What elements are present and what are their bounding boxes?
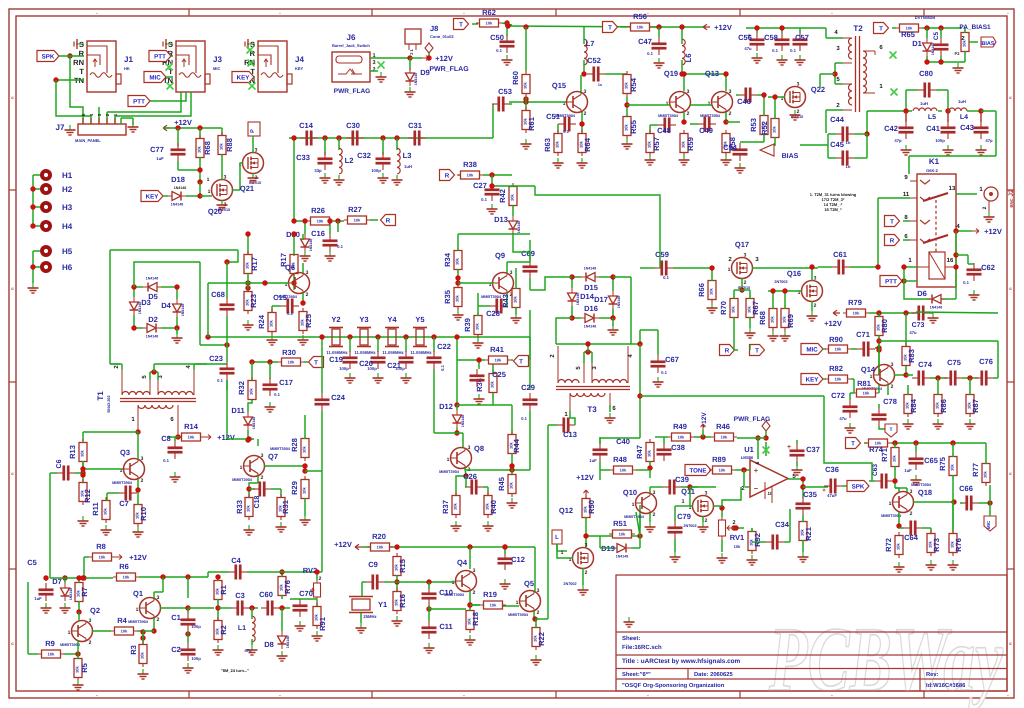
svg-text:C5: C5: [27, 558, 37, 567]
svg-text:R28: R28: [290, 438, 299, 452]
svg-text:L3: L3: [403, 151, 412, 160]
svg-text:2: 2: [729, 111, 732, 117]
svg-text:0.1: 0.1: [963, 280, 969, 285]
svg-text:R34: R34: [443, 252, 452, 267]
svg-text:J1: J1: [124, 55, 133, 64]
svg-text:1: 1: [452, 580, 455, 586]
svg-text:D13: D13: [494, 215, 508, 224]
svg-text:1uF: 1uF: [34, 596, 42, 601]
svg-text:1: 1: [728, 267, 731, 273]
svg-text:R: R: [725, 348, 730, 355]
svg-text:C53: C53: [498, 87, 512, 96]
svg-text:10k: 10k: [317, 219, 324, 224]
svg-text:1uH: 1uH: [958, 99, 966, 104]
svg-text:1n: 1n: [846, 164, 851, 169]
svg-text:10k: 10k: [453, 502, 458, 509]
svg-text:+12V: +12V: [824, 319, 842, 328]
svg-text:C42: C42: [884, 124, 898, 133]
svg-text:3: 3: [537, 588, 540, 594]
svg-text:10k: 10k: [188, 435, 195, 440]
svg-text:R: R: [890, 238, 895, 245]
svg-text:PTT: PTT: [154, 54, 166, 61]
svg-text:2: 2: [585, 570, 588, 576]
svg-text:T: T: [851, 441, 855, 448]
svg-text:1: 1: [561, 550, 564, 556]
svg-text:1N4148: 1N4148: [252, 417, 256, 430]
svg-text:R54: R54: [629, 77, 638, 92]
svg-text:L7: L7: [586, 39, 595, 48]
svg-text:100p: 100p: [191, 624, 201, 629]
svg-text:10k: 10k: [892, 454, 897, 461]
svg-text:C6: C6: [56, 459, 63, 468]
svg-text:D16: D16: [584, 304, 598, 313]
svg-text:2: 2: [705, 518, 708, 524]
svg-text:R14: R14: [184, 422, 199, 431]
svg-text:1N4148: 1N4148: [414, 73, 418, 86]
svg-text:C43: C43: [960, 123, 974, 132]
svg-text:H3: H3: [62, 203, 73, 212]
svg-text:J2: J2: [1008, 189, 1015, 197]
svg-text:R46: R46: [716, 422, 730, 431]
svg-text:C46: C46: [737, 97, 751, 106]
svg-text:LM386: LM386: [741, 455, 754, 460]
svg-text:Conn_01x02: Conn_01x02: [430, 34, 454, 39]
svg-text:0.1: 0.1: [217, 378, 223, 383]
svg-text:R11: R11: [91, 502, 100, 515]
svg-text:0.1: 0.1: [661, 370, 667, 375]
svg-text:10k: 10k: [647, 140, 652, 147]
svg-text:C68: C68: [211, 290, 225, 299]
svg-text:L6: L6: [684, 54, 693, 63]
svg-text:Q21: Q21: [240, 184, 254, 193]
svg-text:2: 2: [157, 617, 160, 623]
svg-text:G6K-2: G6K-2: [926, 168, 939, 173]
svg-text:C59: C59: [655, 250, 669, 259]
svg-text:BIAS: BIAS: [782, 153, 799, 160]
svg-text:R5: R5: [80, 663, 89, 673]
svg-text:Q8: Q8: [474, 444, 484, 453]
svg-text:C56: C56: [738, 33, 752, 42]
svg-text:C64: C64: [904, 533, 919, 542]
svg-text:2: 2: [891, 384, 894, 390]
svg-text:1uF: 1uF: [156, 156, 164, 161]
svg-text:T1: T1: [96, 391, 105, 401]
svg-text:2N7002: 2N7002: [683, 524, 696, 528]
svg-text:0.1: 0.1: [337, 244, 343, 249]
svg-text:R63: R63: [543, 138, 552, 152]
svg-text:10k: 10k: [513, 295, 518, 302]
svg-text:R70: R70: [719, 301, 728, 315]
svg-text:10k: 10k: [354, 218, 361, 223]
svg-text:1: 1: [516, 600, 519, 606]
svg-text:R37: R37: [441, 500, 450, 514]
svg-text:R9: R9: [45, 639, 55, 648]
svg-text:1uH: 1uH: [920, 101, 928, 106]
svg-text:10k: 10k: [140, 651, 145, 658]
svg-text:Rev:: Rev:: [926, 672, 939, 678]
svg-text:H6: H6: [62, 263, 73, 272]
svg-text:R89: R89: [712, 455, 726, 464]
svg-text:1uF: 1uF: [904, 468, 912, 473]
svg-text:C25: C25: [492, 370, 506, 379]
svg-text:C14: C14: [299, 121, 314, 130]
svg-text:R48: R48: [613, 455, 627, 464]
svg-text:0.1: 0.1: [790, 48, 796, 53]
svg-text:R83: R83: [907, 349, 916, 363]
svg-text:10k: 10k: [523, 81, 528, 88]
svg-text:10k: 10k: [455, 257, 460, 264]
svg-text:2: 2: [372, 67, 375, 73]
svg-text:KEY: KEY: [295, 66, 304, 71]
svg-text:1N4148: 1N4148: [146, 277, 159, 281]
svg-text:D12: D12: [439, 402, 453, 411]
svg-text:C1: C1: [171, 613, 181, 622]
svg-text:C57: C57: [795, 33, 809, 42]
svg-text:R50: R50: [587, 500, 596, 514]
svg-text:10k: 10k: [950, 463, 955, 470]
svg-text:2N7002: 2N7002: [774, 280, 787, 284]
svg-text:10k: 10k: [555, 140, 560, 147]
svg-text:R33: R33: [235, 500, 244, 514]
svg-text:3: 3: [157, 595, 160, 601]
svg-text:10k: 10k: [80, 449, 85, 456]
svg-text:J7: J7: [56, 123, 65, 132]
svg-text:R16: R16: [398, 594, 407, 608]
svg-text:+: +: [787, 444, 791, 451]
svg-text:Q16: Q16: [787, 269, 801, 278]
svg-text:18 T2M_*: 18 T2M_*: [824, 207, 842, 212]
svg-text:11.059MHz: 11.059MHz: [410, 350, 431, 355]
svg-text:C2: C2: [171, 645, 181, 654]
svg-text:10k: 10k: [288, 360, 295, 365]
svg-text:3: 3: [510, 270, 513, 276]
svg-text:R61: R61: [527, 117, 536, 131]
svg-text:3: 3: [372, 60, 375, 66]
svg-text:T: T: [889, 427, 892, 433]
svg-text:KEY: KEY: [806, 377, 820, 384]
svg-text:MMBT3904: MMBT3904: [439, 470, 460, 474]
svg-text:R76: R76: [954, 538, 963, 552]
svg-text:"OSQF Org-Sponsoring Organizat: "OSQF Org-Sponsoring Organization: [622, 682, 725, 689]
svg-text:3: 3: [585, 543, 588, 549]
svg-text:C65: C65: [924, 456, 938, 465]
svg-text:R52: R52: [760, 121, 769, 135]
svg-text:C19: C19: [329, 355, 343, 364]
svg-text:10k: 10k: [624, 81, 629, 88]
svg-text:0.1: 0.1: [440, 364, 445, 370]
svg-text:1N4148: 1N4148: [616, 555, 629, 559]
svg-text:R57: R57: [652, 137, 661, 151]
svg-text:C54: C54: [723, 143, 738, 152]
svg-text:R3: R3: [129, 645, 138, 655]
svg-text:R4: R4: [117, 616, 127, 625]
svg-text:2: 2: [537, 610, 540, 616]
svg-text:47u: 47u: [244, 648, 252, 653]
svg-text:C37: C37: [806, 445, 820, 454]
svg-text:R12: R12: [83, 489, 92, 503]
svg-text:1N4148: 1N4148: [138, 302, 142, 315]
svg-text:10k: 10k: [302, 445, 307, 452]
svg-text:10k: 10k: [721, 435, 728, 440]
svg-text:MIC: MIC: [149, 75, 161, 82]
svg-text:J4: J4: [295, 55, 304, 64]
svg-text:10k: 10k: [455, 294, 460, 301]
svg-text:10k: 10k: [853, 311, 860, 316]
svg-text:C41: C41: [926, 124, 940, 133]
svg-text:100p: 100p: [371, 168, 381, 173]
svg-text:+12V: +12V: [576, 473, 594, 482]
svg-text:C23: C23: [209, 354, 223, 363]
svg-text:+12V: +12V: [217, 433, 235, 442]
svg-text:T: T: [608, 25, 612, 32]
svg-text:1N4148: 1N4148: [576, 293, 580, 306]
svg-text:0.1: 0.1: [521, 416, 527, 421]
svg-text:J3: J3: [213, 55, 222, 64]
svg-text:3: 3: [797, 82, 800, 88]
svg-text:C22: C22: [437, 342, 451, 351]
svg-text:1uF: 1uF: [589, 458, 597, 463]
svg-text:D6: D6: [917, 289, 927, 298]
svg-text:C69: C69: [521, 249, 535, 258]
svg-text:H4: H4: [62, 222, 73, 231]
svg-text:P: P: [250, 129, 256, 133]
svg-text:C9: C9: [368, 560, 378, 569]
svg-text:PWR_FLAG: PWR_FLAG: [429, 66, 469, 73]
svg-text:C60: C60: [259, 590, 273, 599]
svg-text:C73: C73: [912, 322, 925, 329]
svg-text:U1: U1: [744, 445, 754, 454]
svg-text:IRF510: IRF510: [218, 208, 230, 212]
svg-text:2: 2: [732, 520, 735, 526]
svg-text:T: T: [519, 359, 523, 366]
svg-text:100p: 100p: [339, 366, 349, 371]
svg-text:0.1: 0.1: [647, 51, 653, 56]
svg-text:R65: R65: [901, 30, 915, 39]
svg-text:MMBT3904: MMBT3904: [508, 613, 529, 617]
svg-text:R92: R92: [753, 533, 762, 547]
svg-text:R22: R22: [537, 632, 546, 646]
svg-text:3: 3: [744, 253, 747, 259]
svg-text:100p: 100p: [367, 366, 377, 371]
svg-text:Barrel_Jack_Switch: Barrel_Jack_Switch: [332, 43, 370, 48]
svg-text:C50: C50: [490, 33, 504, 42]
svg-text:1: 1: [240, 465, 243, 471]
svg-text:R60: R60: [511, 71, 520, 85]
svg-text:C33: C33: [296, 153, 310, 162]
svg-text:10k: 10k: [619, 532, 626, 537]
svg-text:C61: C61: [833, 250, 847, 259]
svg-text:Id:W16C#1686: Id:W16C#1686: [926, 682, 966, 689]
svg-text:33p: 33p: [314, 168, 322, 173]
svg-text:R53: R53: [749, 118, 758, 132]
svg-text:2: 2: [653, 512, 656, 518]
svg-text:C39: C39: [675, 475, 689, 484]
svg-text:C78: C78: [883, 397, 897, 406]
svg-text:H5: H5: [62, 247, 73, 256]
svg-text:T: T: [79, 67, 84, 76]
svg-text:MMBT3904: MMBT3904: [658, 114, 679, 118]
svg-text:Q9: Q9: [495, 251, 505, 260]
svg-text:Q14: Q14: [861, 365, 876, 374]
svg-text:R29: R29: [290, 481, 299, 495]
svg-text:R71: R71: [880, 448, 889, 462]
svg-text:0.1: 0.1: [772, 48, 778, 53]
svg-text:MMBT3904: MMBT3904: [624, 515, 645, 519]
svg-text:R6: R6: [119, 562, 129, 571]
svg-text:10k: 10k: [770, 315, 775, 322]
svg-text:R23: R23: [249, 294, 258, 308]
svg-text:C8: C8: [161, 434, 171, 443]
svg-text:D18: D18: [171, 175, 185, 184]
svg-text:1N4148: 1N4148: [174, 186, 187, 190]
svg-text:MIC: MIC: [806, 347, 818, 354]
svg-text:Q15: Q15: [552, 81, 566, 90]
svg-text:R39: R39: [463, 318, 472, 332]
svg-text:1: 1: [136, 607, 139, 613]
svg-text:R56: R56: [633, 12, 647, 21]
svg-text:R82: R82: [829, 364, 843, 373]
svg-text:Sheet:: Sheet:: [622, 635, 640, 642]
svg-text:R31: R31: [281, 500, 290, 514]
svg-text:C67: C67: [665, 355, 679, 364]
svg-text:D14: D14: [580, 292, 595, 301]
svg-text:R49: R49: [673, 422, 687, 431]
svg-text:C80: C80: [919, 69, 933, 78]
svg-text:L4: L4: [960, 114, 968, 121]
svg-text:D2: D2: [148, 315, 158, 324]
svg-text:10k: 10k: [620, 468, 627, 473]
svg-text:47u: 47u: [839, 416, 847, 421]
svg-text:R41: R41: [490, 345, 504, 354]
svg-text:HK: HK: [124, 66, 130, 71]
svg-text:3: 3: [705, 491, 708, 497]
svg-text:Y1: Y1: [378, 600, 387, 609]
svg-text:10k: 10k: [678, 435, 685, 440]
svg-text:47u: 47u: [744, 46, 752, 51]
svg-text:2: 2: [982, 206, 988, 209]
svg-text:1n: 1n: [598, 83, 602, 87]
svg-text:10k: 10k: [681, 140, 686, 147]
svg-text:D8: D8: [264, 640, 274, 649]
svg-text:10k: 10k: [486, 21, 493, 26]
svg-text:T: T: [879, 26, 883, 33]
svg-text:C7: C7: [119, 499, 129, 508]
svg-text:C36: C36: [825, 465, 839, 474]
svg-text:3: 3: [89, 618, 92, 624]
svg-text:2: 2: [687, 111, 690, 117]
svg-text:R75: R75: [938, 457, 947, 471]
svg-text:10k: 10k: [637, 25, 644, 30]
svg-text:10k: 10k: [121, 629, 128, 634]
svg-text:3: 3: [653, 490, 656, 496]
svg-text:D15: D15: [584, 283, 598, 292]
svg-text:C26: C26: [463, 472, 477, 481]
svg-text:+12V: +12V: [435, 54, 453, 63]
svg-text:R47: R47: [635, 445, 644, 459]
svg-text:2: 2: [141, 478, 144, 484]
svg-text:C12: C12: [511, 555, 525, 564]
svg-text:11: 11: [903, 191, 910, 198]
svg-text:C34: C34: [775, 520, 790, 529]
svg-text:R8: R8: [96, 542, 106, 551]
svg-text:PWR_FLAG: PWR_FLAG: [334, 88, 370, 95]
svg-text:1N4148: 1N4148: [309, 239, 313, 252]
svg-text:1N4148: 1N4148: [146, 335, 159, 339]
svg-text:C62: C62: [981, 263, 995, 272]
svg-text:3: 3: [224, 175, 227, 181]
svg-text:KEY: KEY: [146, 194, 160, 201]
svg-text:10k: 10k: [772, 125, 777, 132]
svg-text:R26: R26: [311, 206, 325, 215]
svg-text:10k: 10k: [490, 603, 497, 608]
svg-text:R35: R35: [443, 290, 452, 304]
svg-text:+12V: +12V: [984, 227, 1002, 236]
svg-text:3: 3: [468, 445, 471, 451]
svg-text:C76: C76: [979, 357, 993, 366]
svg-text:C63: C63: [872, 464, 879, 476]
svg-text:D1: D1: [912, 39, 922, 48]
svg-text:Q18: Q18: [918, 488, 932, 497]
svg-text:0.1: 0.1: [563, 129, 569, 134]
svg-text:1N4148: 1N4148: [461, 415, 465, 428]
svg-text:1N4148: 1N4148: [171, 203, 184, 207]
svg-text:R38: R38: [463, 160, 477, 169]
svg-text:C66: C66: [959, 484, 973, 493]
svg-text:47p: 47p: [985, 138, 993, 143]
svg-text:3: 3: [141, 456, 144, 462]
svg-text:10k: 10k: [731, 305, 736, 312]
svg-text:Q4: Q4: [457, 558, 468, 567]
svg-text:D7: D7: [52, 577, 62, 586]
svg-text:C79: C79: [677, 512, 691, 521]
svg-text:BN43-202: BN43-202: [107, 395, 111, 412]
svg-text:T: T: [314, 360, 318, 367]
svg-text:10k: 10k: [467, 173, 474, 178]
svg-text:Q7: Q7: [268, 452, 278, 461]
svg-text:R20: R20: [372, 532, 386, 541]
svg-text:C45: C45: [830, 140, 844, 149]
svg-text:MIC: MIC: [213, 66, 220, 71]
svg-text:3: 3: [687, 89, 690, 95]
svg-text:Q19: Q19: [664, 69, 678, 78]
svg-text:R: R: [386, 218, 391, 225]
svg-text:10k: 10k: [624, 123, 629, 130]
svg-text:D9: D9: [420, 68, 430, 77]
svg-text:Y2: Y2: [331, 315, 340, 324]
svg-text:1N4148: 1N4148: [930, 306, 943, 310]
svg-text:10k: 10k: [495, 358, 502, 363]
svg-text:C38: C38: [671, 443, 685, 452]
svg-text:C72: C72: [831, 391, 845, 400]
svg-text:1: 1: [207, 177, 210, 183]
svg-text:MMBT3904: MMBT3904: [128, 620, 149, 624]
svg-text:PCBWay: PCBWay: [768, 608, 1003, 708]
svg-text:+12V: +12V: [129, 553, 147, 562]
svg-text:SPK: SPK: [852, 484, 865, 491]
svg-text:PTT: PTT: [133, 99, 145, 106]
svg-text:C52: C52: [587, 56, 601, 65]
svg-text:BIAS: BIAS: [981, 41, 994, 47]
svg-text:C48: C48: [657, 126, 671, 135]
svg-text:1uH: 1uH: [404, 164, 412, 169]
svg-text:2: 2: [306, 292, 309, 298]
svg-text:R90: R90: [829, 335, 843, 344]
svg-text:100p: 100p: [395, 366, 405, 371]
svg-text:0.1: 0.1: [163, 458, 169, 463]
svg-text:R77: R77: [971, 463, 980, 477]
svg-text:R42: R42: [498, 189, 507, 203]
svg-text:C44: C44: [830, 115, 845, 124]
